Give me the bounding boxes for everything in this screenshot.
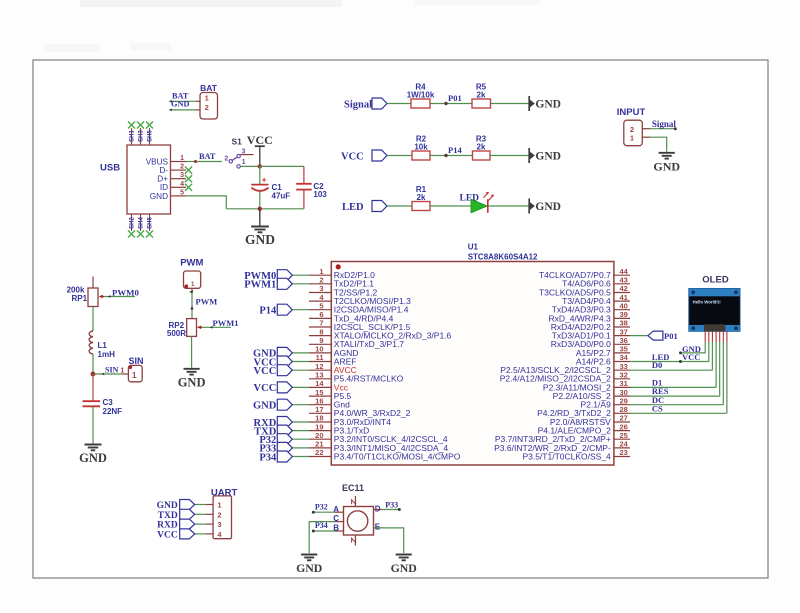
svg-text:VCC: VCC: [247, 133, 273, 147]
wire RP2 wiper, net PWM1: [202, 318, 238, 329]
svg-text:P32: P32: [315, 502, 328, 511]
ground EC11 right: [391, 555, 417, 576]
sheet frame: [33, 60, 768, 578]
U1 pin 27 P2.0/A8/RSTSV: [550, 414, 630, 427]
U1 pin 12 AVCC: [309, 362, 357, 375]
op: MCU U1 STC8A8K60S4A12: [331, 243, 614, 466]
BAT pin 2 wire, net GND: [169, 100, 200, 112]
USB shield pin SH6: [146, 214, 154, 238]
UART pin 3 port RXD: [157, 519, 221, 531]
svg-text:GND: GND: [79, 451, 107, 465]
svg-text:SIN: SIN: [105, 365, 119, 374]
svg-text:20: 20: [315, 431, 323, 440]
svg-text:VCC: VCC: [157, 530, 178, 540]
port PWM0 at U1 pin 1: [244, 270, 309, 282]
connector USB: [100, 145, 171, 214]
U1 pin 7 I2CSCL_SCLK/P1.5: [309, 319, 411, 332]
wire U1 to OLED pin5, net RES: [630, 342, 720, 396]
wire bottom GND rail: [226, 208, 304, 210]
port P14 at U1 pin 5: [259, 304, 309, 316]
svg-text:37: 37: [620, 327, 628, 336]
svg-text:2: 2: [205, 103, 209, 112]
svg-text:Signal: Signal: [344, 100, 372, 111]
svg-text:Hello World!!!: Hello World!!!: [693, 299, 722, 304]
svg-text:P3.4/T0/T1CLKO/MOSI_4/CMPO: P3.4/T0/T1CLKO/MOSI_4/CMPO: [334, 451, 461, 461]
svg-text:GND: GND: [253, 401, 277, 412]
svg-text:34: 34: [620, 353, 629, 362]
ground under C3: [79, 445, 107, 466]
wire U1 to OLED pin6, net DC: [630, 342, 723, 405]
wire R1 to LED anode: [430, 205, 471, 207]
U1 pin 13 P5.4/RST/MCLKO: [309, 371, 404, 384]
resistor R1 2k: [412, 185, 430, 211]
port VCC at U1 pin 14: [254, 382, 309, 394]
U1 pin 40 TxD4/AD3/P0.3: [552, 301, 630, 314]
port P34 at U1 pin 22: [259, 451, 309, 463]
wire RP1 to L1: [92, 307, 94, 332]
U1 pin 3 T2/SS/P1.2: [309, 284, 378, 297]
LED diode: [460, 192, 494, 213]
svg-text:PWM0: PWM0: [112, 288, 139, 298]
U1 pin 15 P5.5: [309, 388, 352, 401]
svg-text:GND: GND: [296, 561, 322, 575]
svg-text:500R: 500R: [167, 329, 186, 338]
resistor R5 2k: [472, 83, 491, 109]
connector INPUT: [617, 107, 646, 146]
wire LED cathode to GND: [488, 205, 529, 207]
wire EC11 A, net P32: [312, 502, 335, 513]
svg-text:GND: GND: [150, 192, 168, 201]
wire R3 to GND: [490, 155, 529, 157]
USB pin 3 D+: [157, 172, 192, 183]
port P33 at U1 pin 21: [259, 442, 309, 454]
U1 pin 25 P3.7/INT3/RD_2/TxD_2/CMP+: [495, 431, 630, 444]
svg-text:11: 11: [316, 353, 324, 362]
svg-text:PWM1: PWM1: [244, 280, 276, 291]
svg-text:2: 2: [217, 510, 221, 519]
svg-text:Signal: Signal: [652, 119, 677, 129]
svg-text:2k: 2k: [477, 91, 486, 100]
svg-text:D0: D0: [652, 360, 662, 370]
wire RP1 wiper, net PWM0: [104, 288, 139, 298]
wire R5 to GND: [491, 103, 529, 105]
wire EC11 E to GND: [374, 528, 404, 553]
svg-text:40: 40: [620, 301, 628, 310]
svg-text:RXD: RXD: [157, 521, 178, 531]
USB pin 5 GND: [150, 189, 186, 200]
ground flag row3: [529, 199, 561, 214]
svg-text:43: 43: [620, 276, 628, 285]
port RXD at U1 pin 18: [254, 417, 309, 429]
U1 pin 41 T3/AD4/P0.4: [562, 293, 630, 306]
svg-text:2k: 2k: [417, 193, 426, 202]
svg-text:GND: GND: [391, 561, 417, 575]
svg-text:SH1: SH1: [130, 130, 136, 142]
U1 pin 36 RxD3/AD0/P0.0: [551, 336, 630, 349]
svg-text:GND: GND: [535, 151, 561, 163]
svg-text:1: 1: [242, 159, 246, 166]
ground under C1: [245, 209, 275, 247]
svg-text:2: 2: [319, 276, 323, 285]
U1 pin 2 TxD2/P1.1: [309, 276, 374, 289]
U1 pin 21 P3.3/INT1/MISO_4/I2CSDA_4: [309, 440, 448, 453]
svg-text:2: 2: [224, 156, 228, 163]
svg-text:LED: LED: [342, 202, 364, 213]
svg-text:SH3: SH3: [139, 130, 145, 142]
inductor L1 1mH: [89, 331, 115, 359]
U1 pin 35 A15/P2.7: [576, 345, 630, 358]
port P32 at U1 pin 20: [259, 434, 309, 446]
port P01 at U1 pin 37: [630, 331, 678, 341]
U1 pin 5 I2CSDA/MISO/P1.4: [309, 301, 409, 314]
U1 pin 20 P3.2/INT0/SCLK_4/I2CSCL_4: [309, 431, 448, 444]
U1 pin 23 P3.5/T1/T0CLKO/SS_4: [522, 448, 630, 461]
U1 pin 10 AGND: [309, 345, 358, 358]
U1 pin 26 P4.1/ALE/CMPO_2: [538, 422, 630, 435]
svg-text:PWM1: PWM1: [213, 318, 239, 328]
svg-text:4: 4: [180, 181, 184, 188]
wire C1 to GND rail: [259, 191, 261, 209]
rotary encoder EC11: [333, 483, 382, 546]
wire R4 to R5, net P01: [430, 93, 472, 105]
svg-text:VCC: VCC: [254, 366, 277, 377]
port GND at U1 pin 16: [253, 399, 309, 411]
U1 pin 1 RxD2/P1.0: [309, 267, 375, 280]
svg-text:P14: P14: [448, 145, 462, 155]
svg-text:P3.5/T1/T0CLKO/SS_4: P3.5/T1/T0CLKO/SS_4: [522, 451, 611, 461]
svg-text:S1: S1: [232, 137, 243, 147]
svg-text:1: 1: [217, 501, 221, 510]
svg-text:SH6: SH6: [148, 217, 154, 229]
port GND at U1 pin 10: [253, 347, 309, 359]
svg-text:GND: GND: [535, 201, 561, 213]
svg-text:INPUT: INPUT: [617, 107, 646, 118]
svg-text:25: 25: [620, 431, 628, 440]
U1 pin 43 T4/AD6/P0.6: [562, 276, 630, 289]
U1 pin 17 P4.0/WR_3/RxD2_2: [309, 405, 411, 418]
svg-text:1: 1: [120, 367, 124, 374]
port Signal: [344, 98, 387, 111]
svg-text:28: 28: [620, 405, 628, 414]
svg-text:P01: P01: [664, 331, 678, 341]
resistor R2 10k: [412, 135, 430, 161]
svg-text:SH5: SH5: [148, 130, 154, 142]
U1 pin 19 P3.1/TxD: [309, 422, 369, 435]
U1 pin 16 Gnd: [309, 396, 350, 409]
wire S1 to VCC node: [240, 165, 259, 167]
svg-text:VCC: VCC: [341, 151, 364, 162]
U1 pin 24 P3.6/INT2/WR_2/RxD_2/CMP-: [494, 440, 630, 453]
U1 pin 30 P2.2/A10/SS_2: [553, 388, 630, 401]
svg-text:TXD: TXD: [158, 511, 178, 521]
ground under RP2: [178, 369, 206, 390]
svg-text:P01: P01: [448, 93, 462, 103]
svg-text:14: 14: [315, 379, 324, 388]
U1 pin 32 P2.4/A12/MISO_2/I2CSDA_2: [500, 371, 630, 384]
USB pin 4 ID: [160, 181, 192, 192]
U1 pin 39 RxD_4/WR/P4.3: [548, 310, 630, 323]
svg-text:OLED: OLED: [702, 275, 729, 286]
svg-text:SIN: SIN: [128, 356, 143, 366]
connector BAT: [200, 83, 218, 119]
U1 pin 37 TxD3/AD1/P0.1: [552, 327, 630, 340]
svg-text:5: 5: [180, 189, 184, 196]
svg-text:BAT: BAT: [200, 83, 218, 93]
U1 pin 31 P2.3/A11/MOSI_2: [543, 379, 630, 392]
USB shield pin SH2: [128, 214, 136, 238]
connector SIN: [128, 356, 143, 382]
svg-text:31: 31: [620, 379, 628, 388]
USB shield pin SH3: [137, 122, 145, 146]
BAT pin 1 wire, net BAT: [169, 91, 200, 102]
svg-text:22NF: 22NF: [103, 407, 123, 416]
UART pin 2 port TXD: [158, 509, 222, 521]
svg-text:GND: GND: [157, 501, 178, 511]
U1 pin 14 Vcc: [309, 379, 349, 392]
U1 pin 42 T3CLKO/AD5/P0.5: [539, 284, 630, 297]
svg-text:1W/10k: 1W/10k: [407, 91, 435, 100]
svg-text:103: 103: [313, 190, 327, 199]
svg-text:CS: CS: [652, 404, 663, 414]
port VCC at U1 pin 11: [254, 356, 309, 368]
svg-text:GND: GND: [653, 159, 680, 173]
port VCC row2: [341, 150, 387, 162]
wire node to C3: [92, 374, 94, 401]
svg-text:3: 3: [217, 520, 221, 529]
wire EC11 D, net P33: [382, 500, 401, 511]
wire R2 to R3, net P14: [430, 145, 473, 157]
wire OLED pin1 net GND: [679, 342, 705, 354]
wire Signal to R4: [387, 103, 411, 105]
port LED row3: [342, 201, 387, 213]
svg-text:P34: P34: [259, 452, 277, 463]
port PWM1 at U1 pin 2: [244, 278, 309, 290]
U1 pin 28 P4.2/RD_3/TxD2_2: [537, 405, 630, 418]
svg-text:GND: GND: [171, 100, 189, 109]
resistor R4 1W/10k: [407, 83, 435, 109]
svg-text:2k: 2k: [477, 143, 486, 152]
wire L1 to node SIN: [92, 354, 94, 374]
svg-text:USB: USB: [100, 163, 120, 174]
power VCC: [247, 133, 273, 166]
U1 pin 18 P3.0/RxD/INT4: [309, 414, 391, 427]
svg-text:VCC: VCC: [254, 383, 277, 394]
svg-text:VCC: VCC: [682, 352, 700, 362]
node junction SIN: [91, 372, 96, 377]
capacitor C2 103: [296, 166, 327, 208]
UART pin 1 port GND: [157, 500, 222, 512]
U1 pin 44 T4CLKO/AD7/P0.7: [539, 267, 630, 280]
U1 pin 33 P2.5/A13/SCLK_2/I2CSCL_2: [500, 362, 630, 375]
wire RP2 to GND: [191, 336, 193, 367]
svg-text:5: 5: [319, 301, 323, 310]
USB shield pin SH1: [128, 122, 136, 146]
node junction VCC/C1 top: [258, 164, 262, 168]
svg-text:10k: 10k: [414, 143, 428, 152]
wire PWM pin to RP2, net PWM: [189, 288, 217, 318]
svg-text:E: E: [375, 522, 381, 531]
svg-text:U1: U1: [468, 243, 479, 252]
svg-text:PWM: PWM: [180, 258, 203, 269]
wire VCC to R2: [387, 155, 412, 157]
wire U1 pin34 to OLED pin2, labels LED / VCC: [630, 342, 709, 363]
U1 pin 9 XTALI/TxD_3/P1.7: [309, 336, 404, 349]
svg-text:STC8A8K60S4A12: STC8A8K60S4A12: [468, 252, 538, 261]
resistor R3 2k: [473, 135, 491, 161]
svg-text:P33: P33: [385, 500, 398, 509]
svg-text:SH4: SH4: [139, 217, 145, 229]
svg-text:2: 2: [630, 125, 634, 134]
svg-text:GND: GND: [245, 232, 275, 247]
ground under INPUT: [653, 153, 680, 174]
svg-text:3: 3: [180, 172, 184, 179]
svg-text:L1: L1: [98, 341, 108, 350]
svg-text:1: 1: [630, 134, 634, 143]
wire node to SIN connector: [93, 365, 128, 375]
svg-text:GND: GND: [178, 375, 206, 389]
svg-text:PWM: PWM: [196, 297, 218, 307]
wire C3 to GND: [92, 407, 94, 444]
wire top rail to C2: [260, 165, 304, 167]
capacitor C3 22NF: [83, 398, 123, 416]
port VCC at U1 pin 12: [254, 365, 309, 377]
svg-text:1mH: 1mH: [98, 350, 116, 359]
wire LED to R1: [387, 205, 412, 207]
wire EC11 B, net P34: [312, 521, 335, 532]
UART pin 4 port VCC: [157, 529, 222, 541]
connector UART: [211, 487, 238, 538]
svg-text:23: 23: [620, 448, 628, 457]
INPUT pin 2 wire, net Signal: [642, 119, 677, 130]
svg-text:P14: P14: [259, 306, 277, 317]
USB shield pin SH4: [137, 214, 145, 238]
wire U1 to OLED pin4, net D1: [630, 342, 716, 388]
ground flag row2: [529, 148, 561, 163]
U1 pin 22 P3.4/T0/T1CLKO/MOSI_4/CMPO: [309, 448, 461, 461]
wire U1 to OLED pin7, net CS: [630, 342, 727, 414]
potentiometer RP1 200k: [67, 277, 104, 307]
svg-text:2: 2: [180, 164, 184, 171]
port TXD at U1 pin 19: [254, 425, 309, 437]
svg-text:17: 17: [315, 405, 323, 414]
wire USB GND to C1: [186, 196, 226, 209]
svg-text:BAT: BAT: [199, 152, 216, 161]
USB pin 2 D-: [159, 164, 192, 175]
svg-text:RP1: RP1: [72, 294, 88, 303]
U1 pin 11 AREF: [309, 353, 356, 366]
wire node to C1: [259, 166, 261, 184]
USB shield pin SH5: [146, 122, 154, 146]
OLED module: [689, 275, 740, 332]
U1 pin 4 T2CLKO/MOSI/P1.3: [309, 293, 411, 306]
U1 pin 34 A14/P2.6: [576, 353, 630, 366]
U1 pin 38 RxD4/AD2/P0.2: [551, 319, 630, 332]
potentiometer RP2 500R: [167, 319, 202, 339]
svg-text:EC11: EC11: [342, 483, 364, 493]
svg-text:47uF: 47uF: [272, 191, 291, 200]
OLED pins: [705, 332, 727, 343]
U1 pin 8 XTALO/MCLKO_2/RxD_3/P1.6: [309, 327, 452, 340]
wire VBUS to S1, net BAT: [186, 152, 222, 163]
svg-text:1: 1: [180, 155, 184, 162]
svg-text:SH2: SH2: [130, 217, 136, 229]
svg-text:8: 8: [319, 327, 323, 336]
svg-text:22: 22: [315, 448, 323, 457]
switch S1: [224, 137, 253, 169]
svg-text:1: 1: [132, 371, 137, 380]
ground flag row1: [529, 96, 561, 111]
svg-text:1: 1: [205, 94, 209, 103]
connector PWM: [180, 258, 203, 289]
U1 pin 29 P2.1/A9: [581, 396, 630, 409]
svg-text:+: +: [262, 175, 267, 185]
USB pin 1 VBUS: [146, 155, 186, 166]
wire EC11 C to GND: [309, 522, 335, 553]
svg-text:GND: GND: [535, 99, 561, 111]
ground EC11 left: [296, 555, 322, 576]
wire U1 to OLED pin3, net D0: [630, 342, 712, 370]
node junction C1 bottom: [258, 207, 262, 211]
U1 pin 6 TxD_4/RD/P4.4: [309, 310, 394, 323]
INPUT pin 1 wire to GND: [642, 137, 666, 152]
capacitor C1 47uF: [251, 175, 290, 201]
svg-text:P34: P34: [315, 521, 328, 530]
